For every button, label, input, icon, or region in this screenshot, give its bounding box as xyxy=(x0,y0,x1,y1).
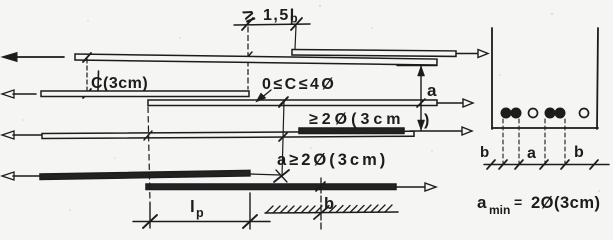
svg-text:0≤C≤4Ø: 0≤C≤4Ø xyxy=(262,76,336,93)
dimension a between row1 and row2 xyxy=(397,66,437,131)
svg-text:a: a xyxy=(427,81,437,100)
label a_min = 2dia(3cm) xyxy=(477,193,601,217)
dimension line diameter(3cm) between row1 and row2 (dashed) xyxy=(86,59,88,96)
section dimension line b a b xyxy=(484,160,609,169)
left arrow row 1 (filled) xyxy=(2,53,64,62)
svg-text:2Ø(3cm): 2Ø(3cm) xyxy=(531,194,601,212)
right arrow row 2 (open) xyxy=(437,99,473,107)
svg-text:b: b xyxy=(324,195,334,213)
svg-text:=: = xyxy=(514,194,522,210)
bar 3a xyxy=(42,131,414,138)
svg-text:): ) xyxy=(424,112,429,129)
cross tick at bar4 extension x=281 xyxy=(274,170,289,182)
tick on bar 5 at x=321 xyxy=(316,182,325,191)
svg-text:p: p xyxy=(196,206,204,220)
bar 5 (dark) xyxy=(146,184,396,190)
svg-text:C(3cm): C(3cm) xyxy=(91,75,148,92)
tick at bottom of dashed line on bar 2a xyxy=(83,89,91,98)
svg-text:b: b xyxy=(574,144,584,161)
bar 1b xyxy=(292,50,456,57)
left arrow row 3 (open) xyxy=(2,131,42,139)
beam cross-section: right wall xyxy=(597,28,598,129)
tick on bar 2b at x=283 xyxy=(279,98,287,107)
extension line (solid) at x=296 down to bar 1b xyxy=(295,26,296,49)
vertical reference line x=284 from bar2b down to bar4 end xyxy=(282,101,284,177)
svg-text:p: p xyxy=(290,12,298,26)
single bar (open circle) xyxy=(529,109,538,118)
leader arrow from label C to splice gap xyxy=(256,90,271,102)
bar 4 (dark) xyxy=(40,170,250,179)
extension line (dashed) at x=248 down to end of bar 2a xyxy=(247,27,249,89)
spliced bar pair 2 (filled circles) xyxy=(545,108,565,118)
svg-text:≥2Ø(3cm: ≥2Ø(3cm xyxy=(309,111,404,128)
svg-text:a: a xyxy=(527,145,536,162)
tick on bar3a at x=283 xyxy=(279,133,287,141)
tick where dashed x=248 crosses bar 1a xyxy=(244,52,252,61)
bar 4 extension line xyxy=(250,174,280,175)
dimension line 1,5lp (top) xyxy=(234,18,310,30)
left arrow row 4 (open) xyxy=(2,172,40,180)
right arrow row 5 (open) xyxy=(396,183,436,191)
bar 2a xyxy=(41,91,249,97)
label diameter (3cm) xyxy=(91,71,148,92)
dashed extension lines below section bars xyxy=(503,119,565,166)
spliced bar pair 1 (filled circles) xyxy=(501,108,521,118)
cross tick on hatch at x=321 xyxy=(314,207,328,219)
right arrow row 1 (open) xyxy=(457,50,488,58)
support hatching under bar 5 xyxy=(265,205,398,213)
dashed line for b at x=321 xyxy=(320,178,322,230)
svg-text:min: min xyxy=(489,203,510,217)
left arrow row 2 (open) xyxy=(2,90,36,98)
bar 3b (dark) xyxy=(299,128,404,134)
lp dimension (bottom) xyxy=(133,193,270,229)
beam cross-section: bottom xyxy=(492,127,598,129)
label >=2dia(3cm) between bar2b and bar3 xyxy=(309,111,429,129)
svg-text:a≥2Ø(3cm): a≥2Ø(3cm) xyxy=(277,151,388,169)
label 0<=C<=4dia xyxy=(262,76,336,93)
bar 1a xyxy=(75,54,437,65)
beam cross-section: left wall xyxy=(491,28,493,129)
tick on bar3a at x=148 xyxy=(144,131,152,140)
bar 2b xyxy=(148,100,437,106)
tick on bar 1a at x=87 xyxy=(83,53,91,62)
label lp xyxy=(190,197,204,220)
dashed extension line x=148 from bar2b start down to lp dimension xyxy=(148,107,150,203)
svg-text:b: b xyxy=(480,144,489,161)
labels b a b xyxy=(480,144,584,162)
svg-text:l: l xyxy=(190,197,195,216)
tick on bar2b at x=284 xyxy=(280,97,288,105)
label ≥1,5lp xyxy=(240,4,298,27)
right arrow row 3 (open) xyxy=(410,127,472,135)
svg-text:a: a xyxy=(477,193,487,212)
single bar (open circle) xyxy=(580,109,589,118)
